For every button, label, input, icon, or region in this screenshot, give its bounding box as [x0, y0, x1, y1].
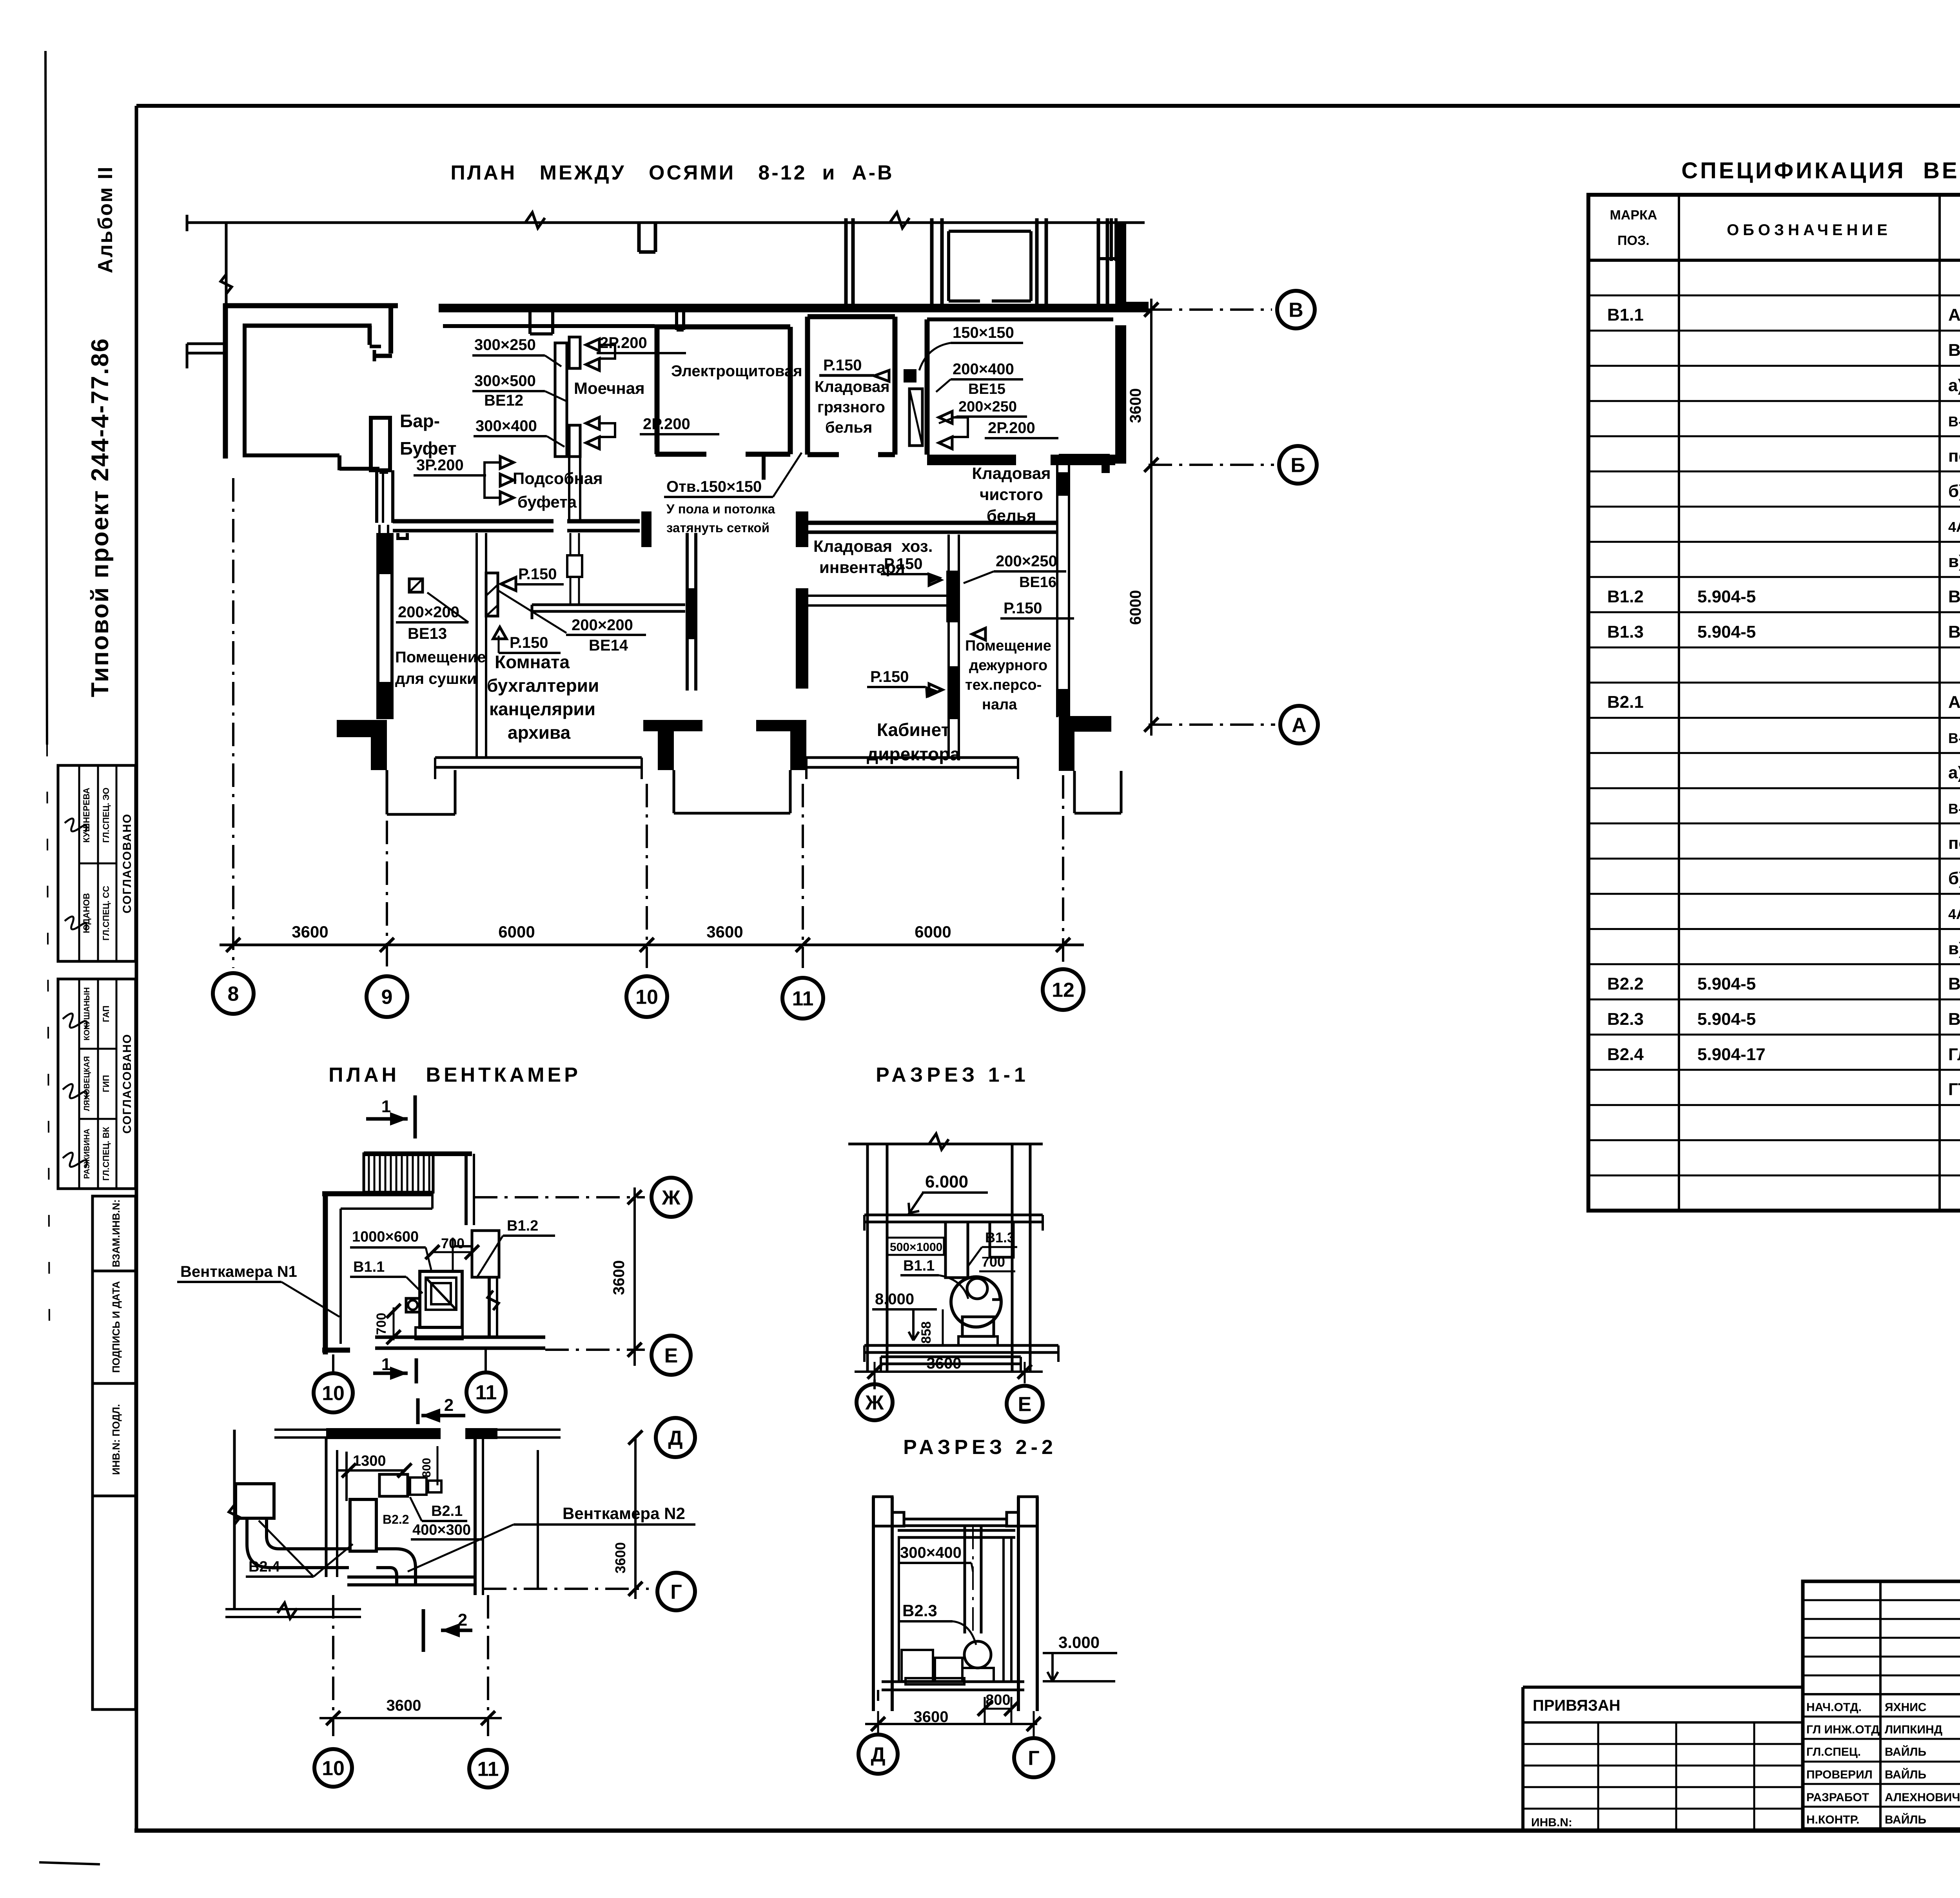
svg-text:ВАЙЛЬ: ВАЙЛЬ [1885, 1768, 1926, 1781]
axis circle 11 [782, 978, 823, 1019]
right dimension line [1150, 299, 1152, 736]
chamber1 bottom wall [375, 1336, 545, 1339]
svg-text:ВЕ14: ВЕ14 [589, 637, 628, 654]
svg-text:В2.4: В2.4 [1607, 1045, 1644, 1064]
svg-text:положение Л0°: положение Л0° [1948, 446, 1960, 466]
svg-text:9: 9 [381, 986, 393, 1009]
fan unit B1.1 plan [420, 1271, 462, 1327]
wall: niche inner top [243, 324, 372, 328]
svg-text:ВАЙЛЬ: ВАЙЛЬ [1885, 1813, 1926, 1826]
svg-text:10: 10 [635, 986, 658, 1009]
svg-text:1000×600: 1000×600 [352, 1229, 419, 1245]
svg-text:12: 12 [1052, 979, 1074, 1002]
wall piers at center hall [641, 511, 652, 547]
chamber1 left wall outer [323, 1191, 328, 1354]
svg-text:белья: белья [987, 506, 1036, 525]
wall: niche outer right + hook [388, 306, 393, 353]
axis B line [1149, 308, 1272, 311]
svg-text:5.904-5: 5.904-5 [1697, 1010, 1756, 1029]
chamber2 axes [483, 1588, 649, 1590]
axis circle 9 [367, 976, 407, 1017]
duct BE16 on cabinet wall [946, 571, 959, 622]
left attached table [1523, 1686, 1803, 1689]
svg-text:Р.150: Р.150 [518, 566, 557, 583]
svg-text:Б: Б [1290, 454, 1305, 477]
svg-text:Ж: Ж [865, 1392, 884, 1414]
svg-text:МАРКА: МАРКА [1610, 208, 1657, 223]
svg-text:3600: 3600 [292, 923, 328, 941]
axis 11 vertical [802, 784, 804, 968]
wall pier at niche door [371, 418, 390, 470]
duct shaft BE12 (Мовечная) [555, 343, 567, 457]
chamber2 left wall [325, 1438, 328, 1577]
section1 axis circles [873, 1380, 876, 1389]
svg-text:ГЛ ИНЖ.ОТД: ГЛ ИНЖ.ОТД [1806, 1723, 1880, 1736]
svg-text:Р.150: Р.150 [823, 357, 862, 374]
svg-text:ПРИВЯЗАН: ПРИВЯЗАН [1533, 1697, 1621, 1714]
spec table header row [1588, 259, 1960, 262]
svg-text:ПЛАН ВЕНТКАМЕР: ПЛАН ВЕНТКАМЕР [328, 1064, 581, 1086]
svg-text:800: 800 [420, 1458, 433, 1477]
svg-text:РАЗРЕЗ 2-2: РАЗРЕЗ 2-2 [903, 1436, 1057, 1459]
duct arrows 3Р.200 [500, 457, 514, 469]
svg-text:200×200: 200×200 [398, 604, 459, 621]
terrace sill lines [435, 756, 642, 759]
svg-text:В2.3: В2.3 [1607, 1010, 1644, 1029]
svg-text:500×1000: 500×1000 [890, 1241, 942, 1254]
svg-text:Вставка ВВ18: Вставка ВВ18 [1948, 974, 1960, 993]
svg-text:РАЗЖИВИНА: РАЗЖИВИНА [83, 1129, 91, 1179]
duct arrows 2Р.200 top [586, 339, 599, 351]
svg-text:ВЕ15: ВЕ15 [968, 381, 1005, 397]
wall: right exterior upper (B..Б) [1115, 223, 1126, 310]
svg-text:10: 10 [322, 1382, 345, 1405]
svg-text:200×250: 200×250 [958, 399, 1017, 415]
section1 walls [866, 1144, 869, 1372]
svg-text:Бар-: Бар- [400, 411, 440, 431]
svg-text:В-Ц4-70 N6.3 исполнение 1,: В-Ц4-70 N6.3 исполнение 1, [1948, 413, 1960, 430]
svg-text:В2.2: В2.2 [1607, 974, 1644, 993]
axis circle 11 (chamber) [466, 1372, 506, 1412]
svg-text:150×150: 150×150 [953, 324, 1014, 341]
svg-text:Агрегат вентиляторный: Агрегат вентиляторный [1948, 692, 1960, 712]
svg-text:Вставка ВН14: Вставка ВН14 [1948, 622, 1960, 642]
svg-text:11: 11 [792, 988, 814, 1010]
section mark 2 bottom [422, 1609, 425, 1652]
axis circle Ж [652, 1178, 691, 1217]
svg-text:200×200: 200×200 [572, 616, 633, 634]
svg-text:для сушки: для сушки [395, 670, 477, 687]
axis circle Д section [858, 1735, 898, 1774]
svg-text:ОБОЗНАЧЕНИЕ: ОБОЗНАЧЕНИЕ [1727, 221, 1891, 239]
svg-text:300×250: 300×250 [474, 336, 536, 353]
svg-text:В1.2: В1.2 [1607, 587, 1644, 606]
svg-text:858: 858 [919, 1322, 934, 1344]
svg-text:Моечная: Моечная [574, 379, 645, 397]
svg-text:ГИП: ГИП [101, 1075, 111, 1092]
stamp table 1 [58, 765, 136, 961]
svg-text:ЛИПКИНД: ЛИПКИНД [1885, 1723, 1942, 1736]
scan paper edge [45, 51, 47, 745]
svg-text:Помещение: Помещение [965, 638, 1051, 654]
chamber1 stair right wall [465, 1154, 468, 1225]
svg-text:3600: 3600 [610, 1260, 628, 1295]
svg-text:Типовой проект 244-4-77.86: Типовой проект 244-4-77.86 [87, 337, 114, 697]
window detail right [1110, 218, 1113, 261]
svg-text:700: 700 [982, 1254, 1005, 1270]
svg-text:Р.150: Р.150 [1004, 600, 1042, 617]
svg-text:3.000: 3.000 [1058, 1633, 1100, 1651]
svg-text:ГТП 1-4: ГТП 1-4 [1948, 1080, 1960, 1099]
wall: left exterior below mid-wall [376, 533, 379, 719]
section1 foundation slab [881, 1356, 1021, 1358]
chamber1 right wall lower [488, 1277, 491, 1337]
svg-text:6000: 6000 [1127, 590, 1144, 625]
wall: right exterior lower (Б..А) double thin [1056, 464, 1058, 717]
title block outer [1803, 1581, 1960, 1829]
svg-text:В1.1: В1.1 [353, 1259, 385, 1275]
section mark 1 top [414, 1095, 417, 1138]
svg-text:6000: 6000 [498, 923, 535, 941]
svg-text:ЛЯХОВЕЦКАЯ: ЛЯХОВЕЦКАЯ [83, 1056, 91, 1111]
svg-text:11: 11 [475, 1381, 497, 1404]
duct arrows 2P.200 storage [939, 412, 952, 424]
svg-text:АЛЕХНОВИЧ: АЛЕХНОВИЧ [1885, 1791, 1960, 1804]
storage clean room left wall [925, 319, 930, 455]
axes 10/11 chamber2 [332, 1595, 334, 1736]
svg-text:Кладовая хоз.: Кладовая хоз. [813, 537, 933, 555]
svg-text:11: 11 [477, 1758, 499, 1781]
svg-text:бухгалтерии: бухгалтерии [487, 675, 599, 696]
chamber2 right wall [474, 1439, 477, 1595]
svg-text:2Р.200: 2Р.200 [988, 419, 1035, 437]
section2 inner walls [898, 1537, 900, 1681]
svg-text:В2.1: В2.1 [431, 1503, 463, 1519]
svg-text:чистого: чистого [980, 485, 1043, 504]
svg-text:3600: 3600 [387, 1697, 421, 1714]
section2 roof slabs [904, 1518, 1007, 1521]
svg-text:ПЛАН МЕЖДУ ОСЯМИ 8-12 и: ПЛАН МЕЖДУ ОСЯМИ 8-12 и А-В [450, 161, 894, 184]
svg-text:200×400: 200×400 [953, 361, 1014, 378]
wall below bar-buffet (triple line) [375, 470, 378, 523]
svg-text:2: 2 [444, 1396, 454, 1415]
axis circle В [1277, 291, 1315, 328]
svg-text:В1.1: В1.1 [1607, 305, 1644, 324]
fan unit B2.1 [379, 1474, 408, 1496]
svg-text:дежурного: дежурного [969, 657, 1047, 674]
duct stub on top line [637, 223, 641, 252]
wall: storage rooms bottom (axis Б) [927, 455, 1016, 465]
svg-text:В-Ц4-70-3.15-03А компл.: В-Ц4-70-3.15-03А компл. [1948, 730, 1960, 746]
svg-text:Венткамера N1: Венткамера N1 [180, 1263, 297, 1280]
svg-text:3Р.200: 3Р.200 [416, 457, 464, 474]
wall: niche inner left [243, 326, 247, 457]
sheet frame [136, 104, 1960, 108]
axis Б line [1149, 464, 1274, 466]
svg-text:ПОЗ.: ПОЗ. [1617, 233, 1650, 248]
svg-text:ВЕ16: ВЕ16 [1019, 574, 1056, 591]
section1 ceiling slab [864, 1214, 1043, 1216]
svg-text:Помещение: Помещение [395, 649, 486, 666]
pier stubs below top wall [528, 312, 532, 334]
svg-text:буфета: буфета [517, 493, 577, 511]
section1 floor slab [864, 1344, 1058, 1347]
chamber1 top wall [322, 1191, 433, 1196]
chamber1 axes [474, 1196, 645, 1198]
svg-text:белья: белья [825, 419, 872, 436]
partition: cabinet/duty room [947, 535, 950, 758]
duct lower P150 cabinet [949, 666, 958, 719]
svg-text:400×300: 400×300 [412, 1522, 471, 1538]
axis 12 vertical [1062, 775, 1064, 965]
thin partition storage bottom right [808, 595, 959, 597]
svg-text:ВЗАМ.ИНВ.N:: ВЗАМ.ИНВ.N: [110, 1199, 122, 1267]
axis circle 10 (chamber2) [314, 1749, 352, 1787]
axis circle 10 (chamber) [314, 1373, 353, 1412]
svg-text:ИНВ.N:: ИНВ.N: [1531, 1816, 1572, 1829]
fan scroll B1.1 section [951, 1277, 1001, 1327]
svg-text:СПЕЦИФИКАЦИЯ ВЕНТИЛЯЦИОННЫХ: СПЕЦИФИКАЦИЯ ВЕНТИЛЯЦИОННЫХ УСТАНОВОК [1681, 158, 1960, 183]
duct riser below shaft [568, 457, 570, 520]
svg-text:Подсобная: Подсобная [513, 469, 603, 488]
svg-text:300×400: 300×400 [900, 1544, 962, 1561]
svg-text:4АА63В4, 0.37КВТ; 1500об/мин: 4АА63В4, 0.37КВТ; 1500об/мин [1948, 906, 1960, 922]
duct arrows 2Р.200 bottom [586, 417, 599, 430]
svg-text:2Р.200: 2Р.200 [643, 415, 690, 433]
section mark 1 bottom [415, 1358, 418, 1383]
svg-text:Альбом II: Альбом II [94, 166, 117, 274]
chamber1 bottom stub [322, 1348, 350, 1353]
svg-text:ВЕ12: ВЕ12 [484, 392, 523, 409]
signature squiggles [65, 819, 87, 832]
svg-text:5.904-5: 5.904-5 [1697, 587, 1756, 606]
svg-text:Кладовая: Кладовая [972, 464, 1051, 482]
svg-text:КОКУШАНЫН: КОКУШАНЫН [83, 987, 91, 1041]
top wall inner line [443, 324, 655, 328]
section2 parapet left [873, 1497, 904, 1526]
svg-text:300×500: 300×500 [474, 372, 536, 390]
svg-text:Е: Е [664, 1345, 678, 1367]
section mark 2 top [416, 1398, 420, 1424]
duct BE14 on partition [486, 573, 498, 616]
wall stub at axis B [1115, 302, 1149, 312]
svg-text:канцелярии: канцелярии [489, 699, 595, 719]
spec table column lines [1678, 195, 1680, 1211]
stairs block [364, 1151, 472, 1156]
chamber2 top wall [274, 1428, 326, 1431]
svg-text:В1.3: В1.3 [1607, 622, 1644, 642]
svg-text:Электрощитовая: Электрощитовая [671, 363, 802, 380]
svg-text:СОГЛАСОВАНО: СОГЛАСОВАНО [121, 813, 134, 914]
svg-text:ГЛ.СПЕЦ.: ГЛ.СПЕЦ. [1806, 1746, 1861, 1758]
svg-text:Кабинет: Кабинет [877, 720, 950, 740]
axis circle Е [652, 1336, 691, 1375]
left edge wall lines [225, 223, 228, 344]
svg-text:2: 2 [458, 1610, 467, 1630]
fan B2.3 section [964, 1641, 991, 1668]
svg-text:ГАП: ГАП [101, 1006, 111, 1022]
axes 10/11 chamber1 [332, 1354, 334, 1372]
svg-text:в)виброизоляторы Д038: в)виброизоляторы Д038 [1948, 939, 1960, 958]
wall: middle corridor wall right part [808, 521, 1057, 525]
svg-text:в)виброизоляторы Д041: в)виброизоляторы Д041 [1948, 552, 1960, 571]
axis circle 10 [626, 976, 667, 1017]
svg-text:а)вентилятор радиальный: а)вентилятор радиальный [1948, 376, 1960, 395]
section2 floor [882, 1680, 1024, 1683]
spec table border [1588, 195, 1960, 1211]
svg-text:КУШНЕРЕВА: КУШНЕРЕВА [82, 788, 91, 843]
wall: middle corridor wall left part [393, 519, 554, 524]
section1 duct [946, 1222, 968, 1278]
svg-text:ГЛ.СПЕЦ. ВК: ГЛ.СПЕЦ. ВК [101, 1127, 111, 1181]
svg-text:В1.2: В1.2 [507, 1218, 538, 1234]
wall: niche outer left [223, 303, 228, 459]
svg-text:Г: Г [670, 1581, 682, 1604]
chamber2 bottom wall [347, 1575, 475, 1579]
wall: electro room bottom [655, 452, 706, 457]
partition: bar-buffet right (duct wall) [378, 525, 381, 572]
wall: niche inner bottom [243, 453, 339, 457]
svg-text:директора: директора [867, 744, 960, 764]
svg-text:грязного: грязного [817, 399, 885, 416]
duct BE13 (drying room) [409, 579, 423, 592]
svg-text:Ж: Ж [662, 1187, 681, 1209]
svg-text:3600: 3600 [927, 1355, 962, 1372]
svg-text:архива: архива [508, 722, 571, 743]
section2 walls [872, 1497, 875, 1711]
svg-text:ГЛ.СПЕЦ. ЭО: ГЛ.СПЕЦ. ЭО [101, 788, 111, 843]
axis circle Г section [1014, 1738, 1053, 1777]
svg-text:Д: Д [668, 1427, 682, 1450]
svg-text:Е: Е [1018, 1393, 1032, 1416]
svg-text:Р.150: Р.150 [884, 555, 923, 573]
axis circle 8 [213, 973, 254, 1014]
partition: drying room / accounting [475, 533, 478, 758]
svg-text:ЯХНИС: ЯХНИС [1885, 1701, 1926, 1714]
axis 8 vertical [232, 478, 234, 968]
svg-text:8.000: 8.000 [875, 1291, 914, 1308]
duct elbows chamber2 [247, 1518, 349, 1568]
wall step at axis Б [1059, 454, 1110, 464]
svg-text:ПРОВЕРИЛ: ПРОВЕРИЛ [1806, 1768, 1873, 1781]
axis 10 vertical [646, 784, 648, 968]
inner partition chamber2 [345, 1452, 348, 1501]
svg-text:Буфет: Буфет [400, 438, 457, 459]
svg-text:положение Л0°: положение Л0° [1948, 834, 1960, 853]
axis circle Д [656, 1418, 695, 1457]
svg-text:В2.4: В2.4 [249, 1559, 280, 1575]
svg-text:В: В [1289, 299, 1303, 322]
svg-text:5.904-5: 5.904-5 [1697, 622, 1756, 642]
svg-text:В1.3: В1.3 [985, 1229, 1015, 1245]
axis circle Ж section [857, 1384, 893, 1420]
muffler B2.4 vertical [350, 1499, 376, 1551]
axis circle 11 (chamber2) [469, 1750, 507, 1787]
svg-text:ВЕ13: ВЕ13 [408, 625, 447, 642]
stamp cells: ВЗАМ.ИНВ / ПОДПИСЬ И ДАТА / ИНВ.№ [93, 1196, 136, 1271]
svg-text:Р.150: Р.150 [870, 668, 909, 685]
svg-text:ИНВ.N: ПОДЛ.: ИНВ.N: ПОДЛ. [110, 1404, 122, 1475]
stamp table 2 [58, 979, 136, 1189]
axis circle Г [657, 1573, 695, 1610]
B1.2 insert rects [472, 1231, 499, 1277]
svg-text:1300: 1300 [353, 1453, 386, 1469]
svg-text:Венткамера N2: Венткамера N2 [563, 1504, 685, 1523]
svg-text:8: 8 [228, 983, 239, 1006]
section2 duct vertical [964, 1526, 966, 1633]
svg-text:3600: 3600 [612, 1542, 628, 1574]
wall: niche outer top [223, 303, 398, 308]
partition: buffet lower wall [379, 471, 388, 474]
svg-text:а)вентилятор радиальный: а)вентилятор радиальный [1948, 763, 1960, 782]
svg-text:5.904-17: 5.904-17 [1697, 1045, 1766, 1064]
svg-text:1: 1 [381, 1355, 391, 1374]
svg-text:Комната: Комната [495, 652, 570, 672]
svg-text:В1.1: В1.1 [903, 1258, 935, 1274]
wall: top exterior (axis B) [439, 304, 1149, 312]
electro room top/right [655, 324, 790, 330]
svg-text:б) электродвигатель: б) электродвигатель [1948, 482, 1960, 501]
axis А line [1149, 723, 1275, 726]
svg-text:Д: Д [871, 1744, 885, 1766]
svg-text:Глушитель трубчатый: Глушитель трубчатый [1948, 1045, 1960, 1064]
wall piece center-left porch [643, 720, 702, 731]
svg-text:3600: 3600 [1127, 388, 1144, 423]
wall piece center-right porch [756, 720, 806, 731]
svg-text:НАЧ.ОТД.: НАЧ.ОТД. [1806, 1701, 1862, 1714]
wall corner at axis А right [1059, 716, 1111, 732]
svg-text:ГЛ.СПЕЦ. СС: ГЛ.СПЕЦ. СС [101, 886, 111, 941]
thin partition T left [532, 604, 685, 606]
section1 top line [848, 1143, 1043, 1146]
svg-text:3600: 3600 [706, 923, 743, 941]
svg-text:В-Ц4-70 N3.15,исполнение 1: В-Ц4-70 N3.15,исполнение 1 [1948, 801, 1960, 817]
svg-text:В2.2: В2.2 [383, 1512, 409, 1526]
title block left grid horizontals [1803, 1599, 1960, 1601]
svg-text:В2.3: В2.3 [902, 1601, 937, 1620]
axis circle Б [1279, 446, 1317, 484]
svg-text:Кладовая: Кладовая [815, 378, 890, 395]
wall corner piece at axis 8/A [337, 720, 387, 737]
svg-text:200×250: 200×250 [996, 553, 1057, 570]
svg-text:РАЗРАБОТ: РАЗРАБОТ [1806, 1791, 1869, 1804]
duct BE15 (storage dirty) [909, 389, 922, 446]
svg-text:тех.персо-: тех.персо- [965, 677, 1042, 693]
porch outlines [386, 770, 388, 814]
svg-text:Агрегат вентиляторный: Агрегат вентиляторный [1948, 305, 1960, 324]
svg-text:300×400: 300×400 [475, 417, 537, 435]
svg-text:б) электродвигатель: б) электродвигатель [1948, 869, 1960, 888]
axis circle Е section [1007, 1386, 1043, 1422]
svg-text:Р.150: Р.150 [510, 634, 548, 651]
svg-text:В-Ц4-70-6.3-03А компл.: В-Ц4-70-6.3-03А компл. [1948, 341, 1960, 360]
svg-text:Вставка ВН11: Вставка ВН11 [1948, 1010, 1960, 1029]
walls above axis B right (double thin) [844, 218, 848, 308]
svg-text:4А100L6; 2.2КВТ; 950об/мин: 4А100L6; 2.2КВТ; 950об/мин [1948, 519, 1960, 535]
muffler B2.4 upper left [236, 1484, 274, 1518]
spec table row lines [1588, 294, 1960, 296]
svg-text:А: А [1292, 714, 1307, 737]
svg-text:10: 10 [322, 1757, 345, 1780]
svg-text:затянуть сеткой: затянуть сеткой [666, 520, 769, 535]
svg-text:6000: 6000 [915, 923, 951, 941]
svg-text:1: 1 [381, 1097, 391, 1116]
bottom dimension line [220, 944, 1084, 946]
svg-text:В2.1: В2.1 [1607, 692, 1644, 712]
svg-text:Н.КОНТР.: Н.КОНТР. [1806, 1813, 1859, 1826]
storage dirty room outline [805, 317, 810, 455]
svg-text:РАЗРЕЗ 1-1: РАЗРЕЗ 1-1 [876, 1064, 1029, 1086]
